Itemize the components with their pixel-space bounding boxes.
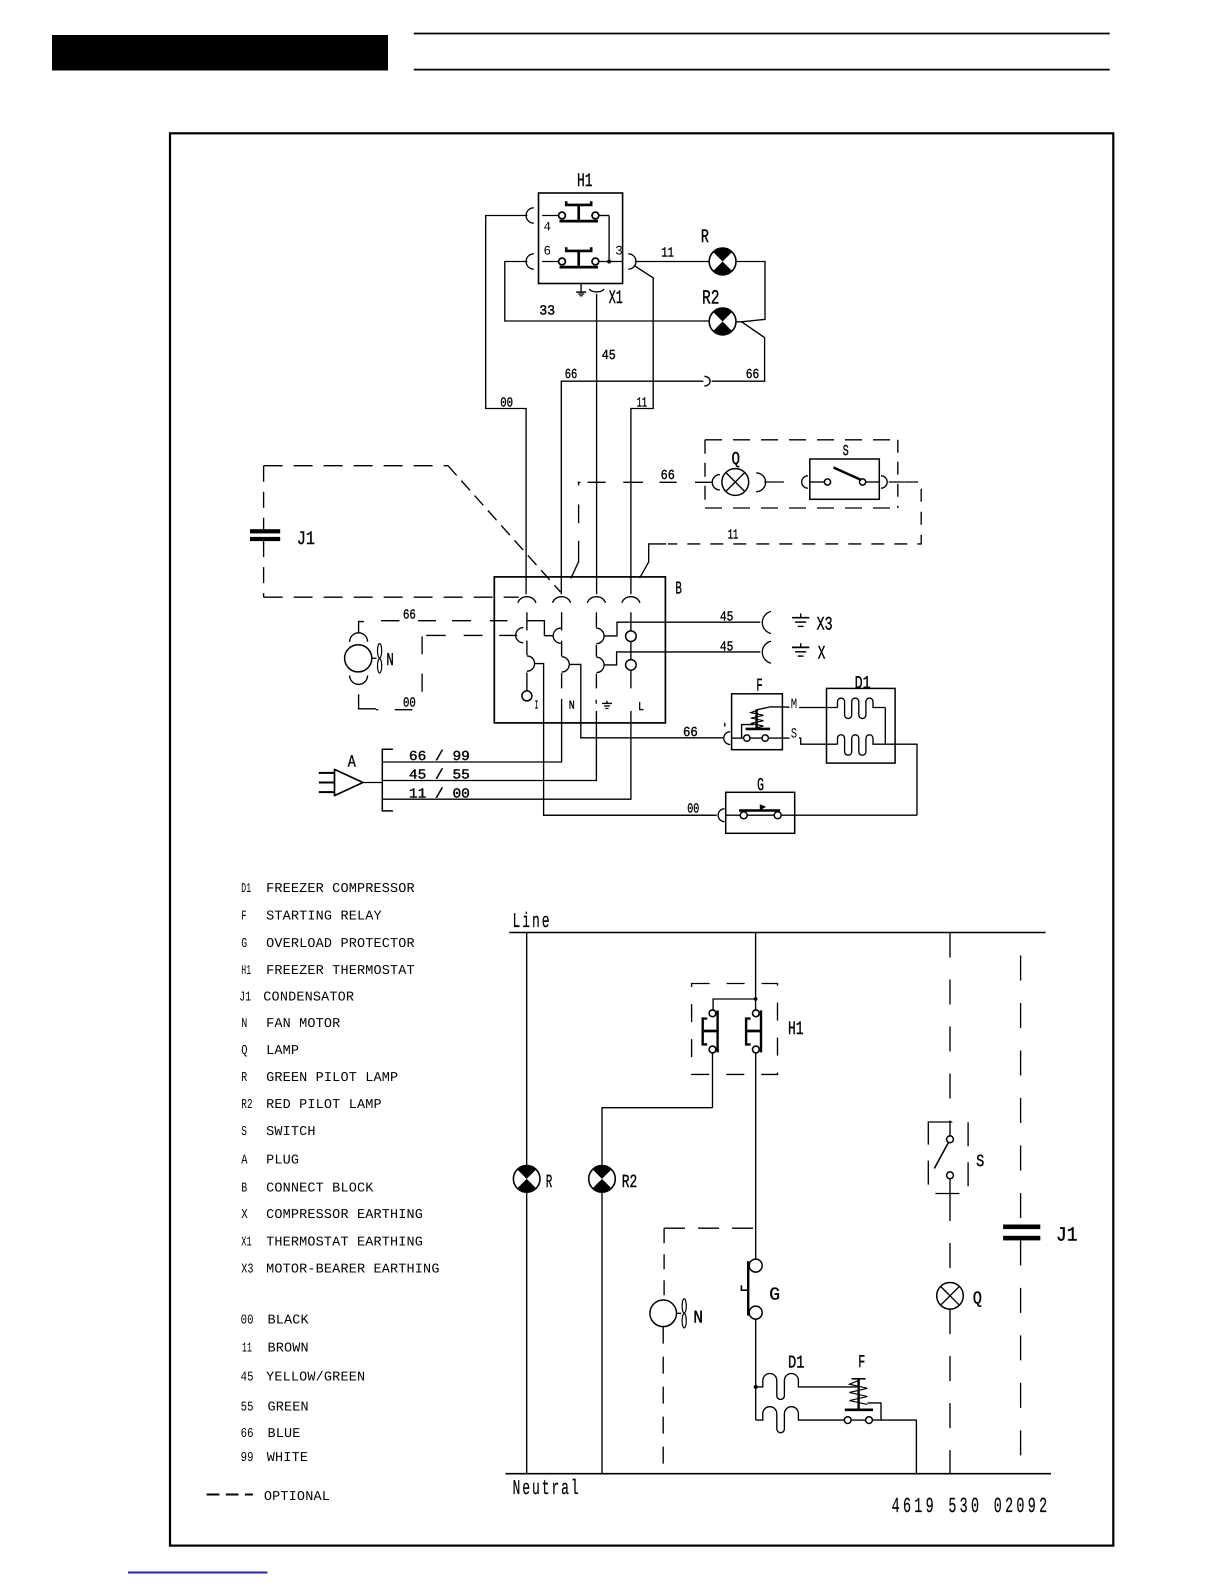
pin earth row1 lead to X3 [604,622,760,636]
X3 earth bar1 [792,617,809,619]
optional enclosure right edge [897,440,899,508]
svg-text:Q: Q [241,1044,247,1059]
svg-text:45: 45 [720,611,734,626]
D1 output wire to G [885,744,917,815]
solid corner of optional 11 wire [640,544,667,578]
F contact circle right bottom [866,1417,873,1424]
switch S left lead [810,481,825,483]
svg-text:11: 11 [728,529,739,544]
pin N stub middle [561,641,563,656]
svg-text:X1: X1 [241,1236,252,1251]
svg-text:G: G [769,1285,780,1305]
svg-text:Line: Line [513,911,552,934]
D1 start winding bottom [756,1407,845,1433]
H1 left contact stem [704,1030,717,1033]
legend optional dashes [207,1493,253,1495]
condensator J1 dashed drop [1020,933,1022,1225]
H1 contact pin4: left lead [542,215,558,217]
svg-text:N: N [386,651,394,671]
connector arc 00-N onto pin I [516,628,524,643]
H1 contact pin6: bridge bar [560,266,599,269]
G lead left [726,814,741,816]
overload protector G box [726,792,795,833]
optional enclosure top edge [705,439,899,441]
switch S box [810,459,880,499]
svg-text:F: F [241,909,247,924]
svg-text:6: 6 [544,244,552,259]
X earth bar2 [795,651,806,653]
J1 box left edge upper [263,466,265,530]
Neutral bus [506,1473,1052,1475]
compressor earthing X3 connector arc [762,612,771,634]
green pilot lamp R bottom [513,1166,540,1193]
dashed 66 wire to lamp Q [578,481,713,483]
thermostat H1 dashed box bottom [692,984,778,1075]
svg-text:BROWN: BROWN [268,1342,309,1357]
H1 pin4 connector arc [526,208,534,223]
pin earth glyph stem [606,701,608,704]
pin I stub upper [526,612,528,630]
condensator J1 plate 1 [250,529,280,533]
wire S from F to D1 [782,738,837,744]
svg-text:B: B [241,1181,247,1196]
J1 box left edge lower [263,541,265,597]
svg-text:R: R [241,1071,247,1086]
svg-text:X: X [818,643,826,665]
optional enclosure bottom edge [705,507,898,509]
lamp Q cross line 1 [941,1286,960,1305]
svg-text:R2: R2 [241,1098,253,1113]
J1 box bottom edge [264,596,519,598]
svg-text:00: 00 [241,1314,254,1329]
switch S blade [934,1143,948,1169]
svg-text:CONDENSATOR: CONDENSATOR [263,991,354,1006]
svg-text:J1: J1 [1056,1224,1078,1247]
wire H1 contacts top tie [713,999,756,1010]
X earth bar1 [792,646,809,648]
wire R2 branch lower [601,1192,603,1474]
pin L stub lower [630,670,632,688]
svg-text:MOTOR-BEARER EARTHING: MOTOR-BEARER EARTHING [266,1263,440,1278]
svg-text:S: S [791,727,797,743]
pin L terminal circle 1 [626,631,637,642]
pin L continuation to plug wire [382,711,631,799]
fan motor N top bracket [359,622,364,634]
svg-text:N: N [241,1017,247,1032]
block B entry arc pin N [553,597,571,603]
connect block B box [494,577,665,723]
H1 contact pin6: right fixed contact circle [592,258,599,265]
pin I terminal circle [522,691,532,701]
svg-text:66: 66 [746,368,760,383]
X3 earth stem [800,613,802,617]
pin earth side connector arc row2 [596,657,604,672]
G lead middle [747,814,774,816]
svg-text:4: 4 [544,220,552,235]
svg-text:R: R [546,1172,553,1193]
wire H1 right contact down to G [755,1053,757,1259]
svg-text:00: 00 [403,697,416,712]
fan N propeller blade down bottom [682,1314,686,1328]
svg-text:L: L [638,700,644,714]
H1 contact pin4: actuator staple bar [566,201,591,205]
X1 earth bar 3 [580,295,583,297]
F output wire to Neutral [872,1420,916,1474]
J1 bottom plate 2 [1003,1236,1040,1241]
H1 contact pin6: left lead [542,261,558,263]
J1 bottom plate 1 [1003,1225,1040,1230]
fan N dashed drop [663,1228,665,1300]
H1 contact pin6: actuator stem [577,251,580,266]
svg-text:CONNECT BLOCK: CONNECT BLOCK [266,1181,374,1196]
svg-text:D1: D1 [855,674,871,694]
svg-text:COMPRESSOR EARTHING: COMPRESSOR EARTHING [266,1208,423,1223]
junction dot D1 [754,1385,758,1389]
X1 earth bar 1 [576,291,586,293]
F contact circle right [762,735,768,741]
svg-text:X1: X1 [609,287,623,309]
pin earth glyph bar2 [604,705,610,707]
wire M from F to D1 [771,706,838,709]
H1 left contact top circle [709,1010,716,1017]
fan motor N bottom bracket [359,694,376,709]
wire 11 from H1 pin3 to lamp R [635,261,709,263]
fan N propeller hub bottom [677,1312,682,1314]
D1 start winding [838,735,886,756]
F lead left [732,737,744,739]
block B entry arc pin earth [587,597,605,603]
switch S left terminal circle [824,479,830,485]
wire main H1 branch [755,933,757,1000]
svg-text:X3: X3 [241,1263,254,1278]
svg-text:FREEZER COMPRESSOR: FREEZER COMPRESSOR [266,882,415,897]
G output wire up to D1 [795,814,917,816]
svg-text:99: 99 [241,1451,254,1466]
svg-text:BLACK: BLACK [268,1314,310,1329]
pin earth glyph bar1 [602,702,612,704]
wire dot to start winding [755,1387,757,1420]
F connector tick [724,723,726,727]
svg-text:B: B [675,580,682,600]
F coil loops bottom [849,1381,867,1405]
svg-text:H1: H1 [577,170,593,192]
pin I side connector arc [527,656,535,671]
junction dot H1 top [754,997,758,1001]
svg-text:S: S [241,1125,247,1140]
optional fan dashed tap [664,1227,756,1229]
footer blue rule [128,1572,268,1574]
F coil to output connector [867,1403,881,1420]
svg-text:M: M [791,697,797,713]
H1 right contact bottom circle [753,1046,760,1053]
svg-text:THERMOSTAT EARTHING: THERMOSTAT EARTHING [266,1236,423,1251]
H1 contact pin4: left fixed contact circle [559,212,566,219]
svg-text:33: 33 [539,305,555,320]
green pilot lamp R [709,248,736,275]
fan motor N body [345,645,372,672]
dashed wire Q to Neutral [949,1309,951,1474]
top rule 2 [414,69,1110,71]
svg-text:D1: D1 [241,882,251,897]
H1 contact pin4: right fixed contact circle [592,212,599,219]
X1 earth bar 2 [578,293,584,295]
fan motor N bottom arc [350,675,368,684]
switch S dashed drop [949,933,951,1130]
lamp Q [722,469,749,496]
G lead right [781,814,795,816]
H1 pin4 right lead to internal junction [599,215,609,217]
svg-text:H1: H1 [241,964,251,979]
wire lamp Q to switch S [764,481,784,483]
F coil stem [755,709,758,729]
wire from switch S to dashed corner [889,481,905,483]
svg-text:YELLOW/GREEN: YELLOW/GREEN [266,1370,365,1385]
H1 right contact staple [746,1019,751,1045]
overload protector G connector arc [718,809,724,822]
H1 contact pin6: actuator staple bar [566,247,591,251]
connector arc on wire 66 [704,376,710,386]
wire 11 branch diagonal down [631,265,653,594]
connector arc 66-N onto pin N [553,628,561,643]
H1 left contact staple [703,1019,708,1045]
H1 right contact bridge bar [760,1010,762,1052]
X3 earth bar3 [798,625,804,627]
switch S dashed bracket [928,1122,968,1194]
fan N dashed to Neutral [662,1327,664,1474]
F coil top diagonal [757,707,772,710]
fan motor N top arc [350,633,368,642]
dashed optional vertical from lamp wire to block B [571,482,579,578]
F lead middle [750,737,762,739]
F contact circle left [744,735,750,741]
fan motor N body bottom [650,1300,677,1327]
svg-text:I: I [535,699,539,713]
H1 left contact bottom circle [709,1046,716,1053]
svg-text:RED PILOT LAMP: RED PILOT LAMP [266,1098,382,1113]
svg-text:J1: J1 [239,991,251,1006]
svg-text:R2: R2 [702,288,720,311]
svg-text:OVERLOAD PROTECTOR: OVERLOAD PROTECTOR [266,937,415,952]
svg-text:45 / 55: 45 / 55 [409,769,470,784]
pin earth stub middle [595,645,597,657]
H1 internal wire pin4 to pin3 [608,216,610,262]
black title bar [52,35,388,71]
lamp Q cross line 2 [726,473,745,492]
H1 pin3 lead to box edge [599,261,623,263]
svg-text:55: 55 [241,1401,254,1416]
pin N side connector arc [562,657,570,672]
svg-text:H1: H1 [788,1018,804,1040]
dashed 66 wire from fan N to block B [381,620,508,622]
switch S top circle [947,1136,954,1143]
J1 dashed to Neutral [1020,1240,1022,1473]
wire R branch lower [526,1192,528,1474]
pin I stub middle [526,641,528,656]
svg-text:45: 45 [720,641,734,656]
F armature bar bottom [845,1408,873,1411]
svg-text:66 / 99: 66 / 99 [409,750,470,765]
red pilot lamp R2 bottom [589,1166,616,1193]
svg-text:45: 45 [241,1370,254,1385]
svg-text:R: R [701,226,709,248]
starting relay F coil stem bottom [857,1379,859,1410]
switch S bottom circle [947,1172,954,1179]
F armature bar [746,728,771,731]
pin I connector lead to G wire [535,664,717,816]
pin earth stub lower [595,674,597,689]
svg-text:STARTING RELAY: STARTING RELAY [266,909,382,924]
D1 winding junction wire [884,708,886,745]
wire 45 from X1 down to block B [596,294,598,594]
fan N propeller blade up bottom [682,1299,686,1313]
svg-text:Neutral: Neutral [513,1478,581,1501]
wire 66 left section down to block B [561,381,703,594]
G terminal circle left [740,812,747,819]
svg-text:66: 66 [683,726,698,741]
svg-text:00: 00 [687,803,699,818]
plug bracket [382,749,393,811]
switch S connector arc right [881,476,887,488]
wire R branch upper [526,933,528,1166]
H1 contact pin4: bridge bar [560,220,599,223]
svg-text:11: 11 [637,396,647,411]
X1 connector arc under H1 [589,289,604,292]
dashed 00 wire from fan N to block B [376,635,517,709]
svg-text:66: 66 [403,609,416,624]
wire H1 left contact down [712,1053,714,1108]
svg-text:S: S [843,443,849,460]
overload protector G top circle bottom [749,1259,762,1272]
plug A prong 3 [319,791,335,793]
svg-text:R2: R2 [622,1172,638,1193]
F armature link wire [742,725,754,739]
starting relay F connector arc [724,732,730,745]
pin I stub lower [526,673,528,691]
F coil top tick bottom [852,1378,866,1380]
svg-text:11 / 00: 11 / 00 [409,787,470,802]
F coil spring loops [751,711,764,728]
svg-text:N: N [693,1308,703,1328]
svg-text:OPTIONAL: OPTIONAL [264,1490,330,1505]
svg-text:PLUG: PLUG [266,1154,299,1169]
plug A prong 1 [319,772,335,774]
plug A triangle [335,769,363,795]
block B entry arc pin L [622,597,640,603]
D1 main winding [838,698,886,719]
svg-text:J1: J1 [297,528,315,550]
svg-text:Q: Q [732,450,741,470]
switch S top lead [949,1129,951,1136]
svg-text:LAMP: LAMP [266,1044,299,1059]
H1 contact pin6: left fixed contact circle [559,258,566,265]
svg-text:F: F [756,677,762,697]
svg-text:G: G [241,937,247,952]
switch S right terminal circle [860,479,866,485]
pin L stub middle [630,642,632,660]
fan motor N propeller blade down [378,659,382,673]
pin earth glyph bar3 [605,708,608,710]
condensator J1 plate 2 [250,537,280,541]
lamp Q cross line 2 [941,1286,960,1305]
svg-text:A: A [241,1154,248,1169]
H1 left contact bridge bar [716,1010,718,1052]
svg-text:S: S [976,1153,984,1172]
svg-text:GREEN: GREEN [268,1401,309,1416]
pin N continuation to plug wire [382,699,561,762]
G terminal circle right [774,812,781,819]
svg-text:FAN MOTOR: FAN MOTOR [266,1017,340,1032]
svg-text:11: 11 [661,247,674,262]
H1 pin3 connector arc [628,254,636,269]
optional lamp/switch dashed enclosure left edge [704,440,706,508]
pin N connector lead to 66 F wire [569,664,723,737]
svg-text:X3: X3 [817,613,833,635]
condensator J1 optional box top edge [264,465,448,467]
wire 00 from H1 pin4 [486,216,528,595]
svg-text:SWITCH: SWITCH [266,1125,316,1140]
dashed wire S to lamp Q [949,1196,951,1283]
switch S bottom lead [949,1179,951,1196]
F contact circle left bottom [844,1417,851,1424]
wire R right side down [736,262,765,322]
wire R2 branch from H1 [602,1108,713,1166]
F lead right [768,737,782,739]
svg-text:G: G [757,776,764,796]
pin earth stub upper [595,612,597,627]
thermostat H1 box [539,193,623,284]
X3 earth bar2 [795,621,806,623]
G bimetal bar [739,809,780,812]
svg-text:FREEZER THERMOSTAT: FREEZER THERMOSTAT [266,964,415,979]
H1 internal junction dot node 3 [607,260,611,264]
H1 right contact top circle [753,1010,760,1017]
svg-text:GREEN PILOT LAMP: GREEN PILOT LAMP [266,1071,398,1086]
starting relay F box [732,694,783,750]
X earth bar3 [798,655,804,657]
svg-text:66: 66 [661,469,675,484]
plug A lead [364,782,383,784]
Line bus [509,932,1045,934]
J1 box diagonal dashed wire to block B [448,466,561,592]
wire 66 from R2 down-left loop [712,322,765,381]
pin L stub upper [630,612,632,631]
H1 right contact stem [747,1030,760,1033]
solid 66-N connection inside block [527,621,553,636]
fan motor N propeller blade up [378,644,382,658]
pin N stub upper [561,612,563,630]
lamp Q socket arc left [712,475,720,490]
diagram frame border [170,133,1113,1545]
wire 33 from H1 pin6 to lamp R2 [505,262,709,322]
svg-text:4619 530 02092: 4619 530 02092 [892,1495,1051,1519]
svg-text:D1: D1 [788,1353,805,1373]
pin earth side connector arc row1 [596,628,604,643]
svg-text:66: 66 [241,1427,254,1442]
red pilot lamp R2 [709,308,736,335]
X earth stem [800,643,802,647]
fan motor N propeller hub [372,657,377,659]
F lead middle bottom [851,1419,866,1421]
G bimetal bar bottom [747,1261,749,1315]
svg-text:Q: Q [973,1290,982,1310]
freezer compressor D1 box [827,688,896,763]
G bottom circle bottom [749,1306,762,1319]
svg-text:66: 66 [565,368,578,383]
switch S connector arc left [802,476,808,488]
switch S blade [834,468,862,481]
plug A prong 2 [319,782,335,784]
svg-text:00: 00 [500,396,513,411]
